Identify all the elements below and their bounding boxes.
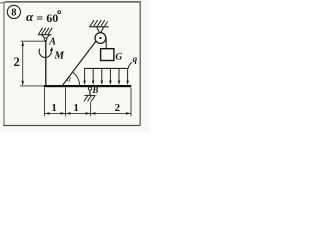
bottom dim arrows <box>45 112 131 115</box>
svg-text:A: A <box>48 37 56 48</box>
rope from beam to pulley <box>62 41 96 86</box>
svg-text:= 60: = 60 <box>36 11 58 25</box>
support B pin circle <box>88 87 91 90</box>
support B hatching <box>84 96 95 102</box>
pulley mount bracket <box>97 27 104 34</box>
svg-text:q: q <box>133 54 138 64</box>
support B ground line <box>85 94 96 96</box>
frame bottom border <box>3 125 140 126</box>
pulley axle dot <box>99 37 101 39</box>
rope from pulley down to weight <box>105 39 107 49</box>
beam <box>44 85 131 87</box>
svg-text:1: 1 <box>51 102 57 114</box>
frame right border <box>140 1 141 126</box>
frame left border <box>3 2 4 126</box>
dimension 2 top extension line <box>21 40 46 42</box>
svg-text:α: α <box>67 75 72 84</box>
svg-text:G: G <box>115 53 122 63</box>
svg-text:B: B <box>91 85 98 95</box>
support B stem <box>89 90 91 95</box>
bottom dim extension line at beam end <box>130 88 132 117</box>
bottom dimension line <box>45 112 132 114</box>
dimension 2 top arrow <box>21 41 24 46</box>
pulley ceiling line <box>89 26 109 28</box>
svg-text:M: M <box>53 50 65 62</box>
distributed load arrows <box>85 68 128 82</box>
pulley ceiling hatching <box>90 20 108 26</box>
svg-text:8: 8 <box>11 8 16 19</box>
support A pin circle <box>44 38 47 41</box>
angle alpha arc <box>72 72 79 85</box>
dimension 2 vertical line <box>22 42 24 85</box>
svg-text:α: α <box>26 9 34 24</box>
svg-text:1: 1 <box>73 102 79 114</box>
pulley wheel <box>95 33 106 44</box>
bottom dim extension line at B <box>90 102 92 117</box>
moment M arrowhead <box>50 47 53 51</box>
moment M arc <box>39 49 51 58</box>
svg-text:2: 2 <box>115 102 121 114</box>
support A hatching <box>38 28 52 35</box>
distributed load top line <box>84 67 128 69</box>
beam level extension line to left <box>20 85 44 87</box>
support A ceiling line <box>38 34 52 36</box>
label q leader <box>128 62 132 68</box>
support A pin triangle <box>42 35 50 40</box>
bottom dim extension line at rope point <box>65 88 67 117</box>
bottom dim extension line at A <box>44 88 46 117</box>
rod from A to beam <box>45 40 47 86</box>
dimension 2 bottom arrow <box>21 81 24 86</box>
frame top border <box>5 1 141 2</box>
svg-text:2: 2 <box>13 54 20 69</box>
variant circle 8 <box>7 5 20 18</box>
weight G box <box>101 49 114 61</box>
